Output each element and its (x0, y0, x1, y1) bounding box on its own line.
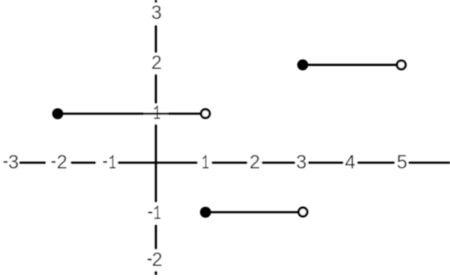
svg-text:2: 2 (250, 152, 261, 173)
svg-text:3: 3 (151, 3, 162, 24)
x-axis tick label 1: white gap box (198, 152, 212, 173)
y-axis (155, 0, 157, 275)
open endpoint circle at (5,2) (397, 61, 406, 70)
closed endpoint dot at (1,-1) (200, 207, 211, 218)
x-axis tick label 3: white gap box (295, 152, 308, 173)
closed endpoint dot at (3,2) (297, 59, 308, 70)
x-axis tick label -1: white gap box (96, 152, 118, 173)
y-axis tick label -2 (148, 259, 152, 261)
y-axis tick label 2: white gap box (144, 53, 168, 74)
svg-text:1: 1 (154, 203, 161, 226)
x-axis tick label -2 (52, 161, 56, 163)
y-axis tick label 1: white gap box (144, 104, 168, 125)
svg-text:2: 2 (57, 152, 68, 173)
svg-text:5: 5 (397, 152, 408, 173)
svg-text:2: 2 (151, 53, 162, 74)
closed endpoint dot at (-2,1) (52, 108, 63, 119)
y-axis tick label -2: white gap box (144, 249, 168, 271)
x-axis tick label -1 (103, 161, 107, 163)
y-axis tick label 3: white gap box (144, 3, 168, 25)
y-axis tick label -1 (148, 212, 152, 214)
x-axis tick label -2: white gap box (46, 152, 71, 173)
x-axis tick label 5: white gap box (395, 152, 409, 173)
x-axis (0, 162, 450, 164)
x-axis tick label -3: white gap box (0, 152, 19, 173)
x-axis tick label 4: white gap box (343, 152, 357, 173)
svg-text:3: 3 (8, 152, 19, 173)
svg-text:1: 1 (109, 152, 116, 175)
x-axis tick label 2: white gap box (247, 152, 261, 173)
step segment y=2 from x=3 to x=5 (303, 64, 402, 66)
svg-text:4: 4 (345, 152, 356, 173)
svg-text:3: 3 (296, 152, 307, 173)
step segment y=-1 from x=1 to x=3 (206, 211, 303, 213)
open endpoint circle at (1,1) (201, 109, 210, 118)
svg-text:2: 2 (152, 250, 163, 271)
x-axis tick label -3 (4, 161, 8, 163)
step segment y=1 from x=-2 to x=1 (58, 113, 206, 115)
svg-text:1: 1 (202, 152, 209, 175)
y-axis tick label -1: white gap box (144, 202, 168, 224)
open endpoint circle at (3,-1) (299, 208, 308, 217)
